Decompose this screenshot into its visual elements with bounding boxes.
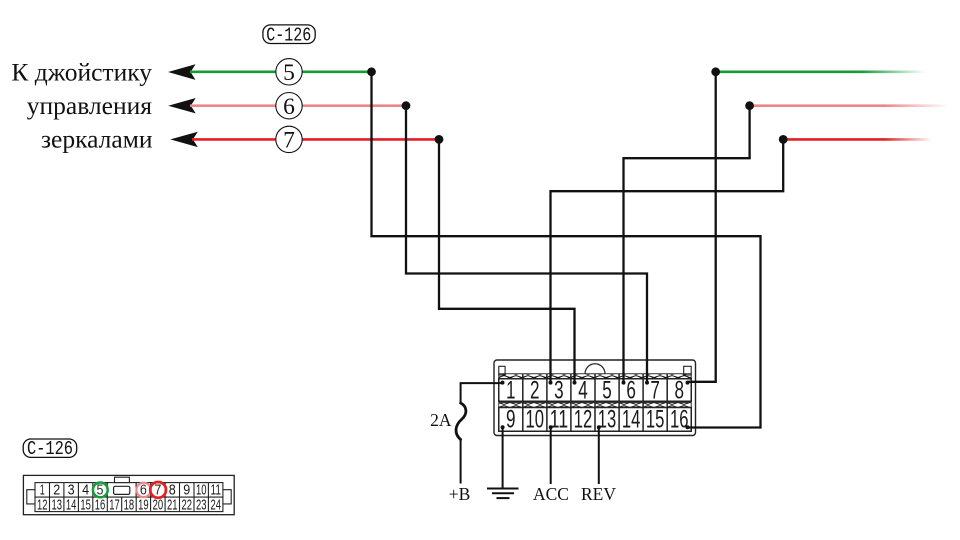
pinout key notch right <box>223 490 231 504</box>
wire: pink-left routing to pin 7 <box>406 106 647 382</box>
svg-text:24: 24 <box>210 497 221 513</box>
svg-text:11: 11 <box>550 406 569 434</box>
svg-text:18: 18 <box>124 497 135 513</box>
svg-text:14: 14 <box>66 497 77 513</box>
svg-text:11: 11 <box>210 483 221 499</box>
wire: pink-right routing to pin 6 <box>624 106 750 382</box>
svg-text:REV: REV <box>581 484 616 504</box>
wire 5 green right segment (fading) <box>716 71 925 74</box>
fuse 2A feed wire to pin 1 <box>461 383 503 403</box>
contact dot pin 3 <box>549 381 553 385</box>
svg-text:2: 2 <box>530 377 540 405</box>
svg-text:12: 12 <box>37 497 48 513</box>
svg-text:4: 4 <box>578 377 588 405</box>
svg-text:C-126: C-126 <box>27 438 73 460</box>
contact dot pin 7 <box>645 381 649 385</box>
contact dot pin 8 <box>686 381 690 385</box>
connector label C-126 (top) <box>263 24 315 46</box>
svg-text:12: 12 <box>574 406 593 434</box>
svg-text:22: 22 <box>182 497 193 513</box>
wire 5 green left segment <box>190 71 372 74</box>
svg-text:7: 7 <box>283 128 295 154</box>
contact dot pin 13 <box>597 425 601 429</box>
wire 7 red left segment <box>192 138 439 141</box>
svg-text:21: 21 <box>167 497 178 513</box>
junction dot wire6 right <box>745 101 754 110</box>
contact dot pin 9 <box>501 425 505 429</box>
contact dot pin 4 <box>573 381 577 385</box>
connector key arc <box>585 364 605 374</box>
pinout row 1 cells 1-5 <box>35 483 107 498</box>
wire pin 11 to ACC <box>550 427 552 484</box>
svg-text:15: 15 <box>80 497 91 513</box>
pin number bubble 7 <box>276 126 302 153</box>
pinout highlight circle pin 7 <box>150 482 166 498</box>
wire: green-right routing to pin 8 <box>688 72 716 382</box>
svg-text:9: 9 <box>183 483 190 499</box>
pinout row 1 cells 6-11 <box>136 483 223 498</box>
junction dot wire5 left <box>367 67 376 76</box>
ground symbol <box>487 489 519 499</box>
svg-text:C-126: C-126 <box>266 24 311 46</box>
pin number bubble 6 <box>276 93 302 120</box>
svg-text:2A: 2A <box>430 410 452 430</box>
connector C-126 pinout <box>23 475 234 514</box>
svg-text:управления: управления <box>27 91 153 120</box>
svg-text:8: 8 <box>169 483 176 499</box>
junction dot wire7 right <box>779 135 788 144</box>
svg-text:20: 20 <box>153 497 164 513</box>
svg-text:16: 16 <box>95 497 106 513</box>
svg-text:3: 3 <box>68 483 75 499</box>
connector clip left <box>499 366 505 375</box>
arrow (wire 7) <box>170 132 198 147</box>
pin dividers row 2 <box>523 403 667 432</box>
svg-text:зеркалами: зеркалами <box>41 125 153 154</box>
pin dividers row 1 <box>523 374 667 402</box>
junction dot wire6 left <box>402 101 411 110</box>
wire 6 pink right segment (fading) <box>750 104 948 107</box>
svg-text:4: 4 <box>82 483 89 499</box>
svg-text:10: 10 <box>526 406 545 434</box>
wire 7 red right segment (fading) <box>783 138 932 141</box>
pinout row 2 cells 12-24 <box>35 497 223 512</box>
wire: green-left routing to pin 16 <box>372 72 761 428</box>
svg-text:16: 16 <box>670 406 689 434</box>
contact dot pin 6 <box>622 381 626 385</box>
svg-text:1: 1 <box>40 483 45 499</box>
svg-text:ACC: ACC <box>533 484 569 504</box>
contact strip row 1 <box>499 374 692 379</box>
junction dot wire5 right <box>711 67 720 76</box>
svg-text:+B: +B <box>449 484 471 504</box>
svg-text:19: 19 <box>138 497 149 513</box>
pin row 1 frame <box>499 379 692 402</box>
connector label C-126 (bottom) <box>23 438 76 460</box>
svg-text:15: 15 <box>646 406 665 434</box>
pinout highlight circle pin 5 <box>93 483 108 498</box>
pinout numbers row 2 <box>37 497 221 513</box>
svg-text:5: 5 <box>283 60 295 86</box>
wire 6 pink left segment <box>190 104 406 107</box>
pin row 2 frame <box>499 408 692 432</box>
contact dot pin 16 <box>686 425 690 429</box>
svg-text:23: 23 <box>196 497 207 513</box>
svg-text:К джойстику: К джойстику <box>11 58 152 87</box>
svg-text:2: 2 <box>53 483 60 499</box>
pin number bubble 5 <box>276 59 302 86</box>
pin numbers 9-16 <box>506 406 688 434</box>
contact strip row 2 <box>499 403 692 408</box>
wire pin 9 to ground <box>502 427 504 487</box>
connector clip right <box>684 366 692 375</box>
wire: red-right routing to pin 3 <box>551 139 784 382</box>
pin numbers 1-8 <box>506 377 684 405</box>
junction dot wire7 left <box>435 135 444 144</box>
svg-text:13: 13 <box>51 497 62 513</box>
svg-text:14: 14 <box>622 406 641 434</box>
pinout lock tab top <box>115 477 130 482</box>
arrow (wire 6) <box>168 98 196 113</box>
contact dot pin 1 <box>501 381 505 385</box>
svg-text:8: 8 <box>674 377 684 405</box>
fuse 2A symbol <box>456 403 466 440</box>
svg-text:17: 17 <box>109 497 120 513</box>
pinout highlight circle pin 6 <box>136 483 150 497</box>
radio connector body <box>494 360 696 436</box>
label: К джойстику управления зеркалами <box>11 58 152 154</box>
wire fuse to +B <box>460 440 462 484</box>
pinout numbers row 1 <box>40 483 221 499</box>
wire: red-left routing to pin 4 <box>439 139 575 382</box>
wire pin 13 to REV <box>598 427 600 484</box>
svg-text:13: 13 <box>598 406 617 434</box>
svg-text:10: 10 <box>196 483 207 499</box>
svg-text:6: 6 <box>626 377 636 405</box>
pinout key notch left <box>27 490 35 504</box>
svg-text:7: 7 <box>650 377 660 405</box>
svg-text:1: 1 <box>506 377 515 405</box>
pinout row 1 gap (lock bay) <box>107 483 136 498</box>
svg-text:3: 3 <box>554 377 564 405</box>
arrow to mirror joystick (wire 5) <box>168 64 196 80</box>
svg-text:9: 9 <box>506 406 516 434</box>
pinout lock body <box>114 486 130 494</box>
svg-text:5: 5 <box>602 377 612 405</box>
contact dot pin 11 <box>549 425 553 429</box>
svg-text:6: 6 <box>283 94 295 120</box>
